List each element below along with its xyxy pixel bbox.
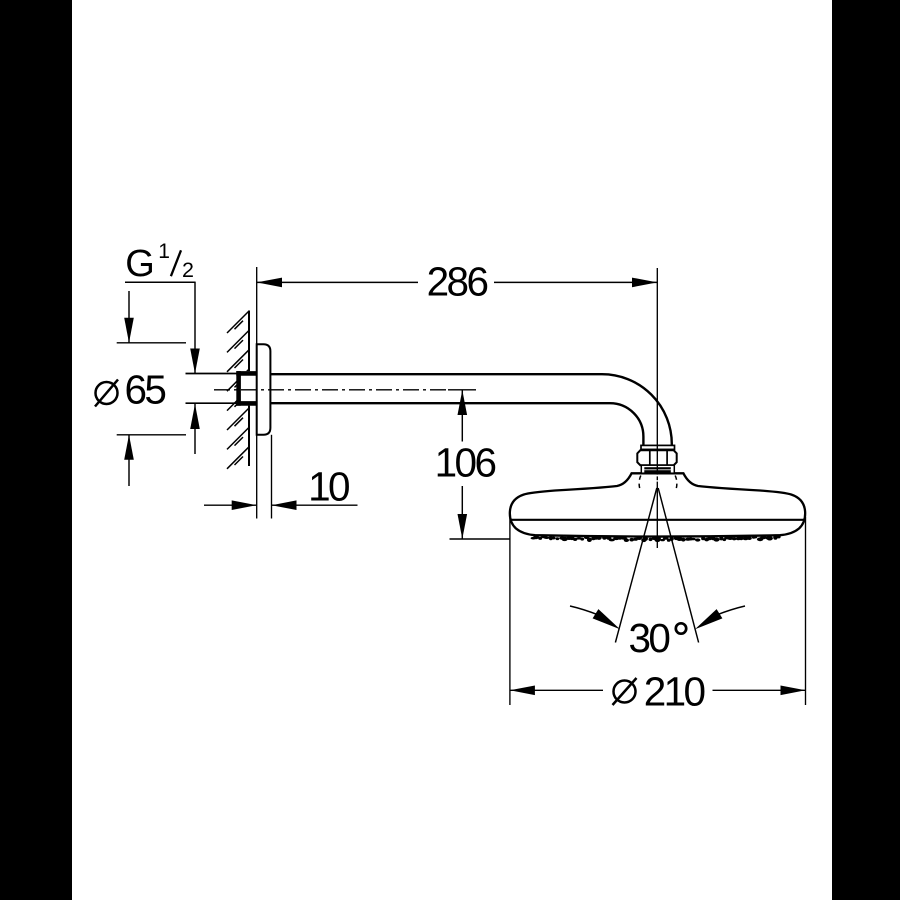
dimension 286: dim line right segment [494, 281, 657, 283]
swivel ring 1 [644, 467, 671, 469]
wall face extension line [256, 267, 258, 519]
right black pillar bar [832, 0, 900, 900]
dimension O65: top arrow [128, 291, 130, 343]
wall hatching [227, 311, 249, 469]
union nut [637, 450, 676, 465]
wall flange (escutcheon) [257, 344, 271, 435]
left arc arrow for 30 deg [570, 606, 598, 615]
svg-text:30: 30 [629, 615, 670, 661]
svg-text:10: 10 [308, 464, 349, 510]
svg-text:G: G [125, 243, 155, 285]
dimension 286: right arrowhead [632, 278, 657, 288]
dimension O210: dim line left segment [510, 689, 603, 691]
O210 left extension line [509, 517, 511, 705]
O210 right extension line [805, 517, 807, 705]
dimension 106: lower arrow to extent [461, 486, 463, 539]
bottom face line over nozzles [535, 535, 780, 536]
diameter symbol for 65 [95, 380, 118, 407]
center nozzle dot [654, 536, 661, 542]
degree symbol [676, 623, 686, 633]
diameter symbol for 210 [613, 678, 637, 705]
pipe centerline (dash-dot) [214, 389, 448, 391]
svg-text:2: 2 [182, 258, 194, 282]
spray cone left line [615, 488, 656, 643]
head seam line [510, 519, 805, 521]
dimension 106: upper arrow to centerline [461, 390, 463, 442]
dimension O210: dim line right segment [713, 689, 806, 691]
right arc arrow for 30 deg [717, 606, 745, 615]
wall line [248, 311, 250, 467]
svg-text:286: 286 [427, 259, 488, 305]
svg-text:106: 106 [435, 440, 496, 486]
left black pillar bar [0, 0, 72, 900]
shower head body [510, 473, 805, 536]
svg-text:210: 210 [644, 669, 705, 715]
dimension 10: dim line left segment [204, 504, 257, 506]
G1/2 leader line and arrow to pipe top [194, 282, 196, 373]
shower arm bottom outline with inner bend [270, 403, 643, 447]
dimension 10: dim line right segment [272, 504, 358, 506]
spray nozzle band [531, 535, 781, 542]
dimension 286: dim line left segment [257, 281, 418, 283]
dimension O65: bottom arrow [128, 435, 130, 486]
shower arm top outline with outer bend [270, 374, 671, 447]
dimension O65: top extent line [117, 342, 186, 344]
dimension 106: bottom extent line [450, 538, 510, 540]
G1/2 connector square [237, 371, 257, 405]
svg-text:1: 1 [158, 240, 170, 263]
G1/2 lower arrow to pipe bottom [194, 404, 196, 454]
pipe thread outline extensions (left of wall) [186, 373, 237, 375]
collar under pipe [641, 445, 675, 449]
svg-text:65: 65 [125, 367, 166, 413]
flange front extension line for 10 [271, 435, 273, 519]
taper below nut [641, 465, 674, 473]
swivel ring 2 [644, 470, 671, 473]
spray cone right line [658, 488, 698, 643]
hidden ball joint dashed arcs [639, 476, 677, 492]
G1/2 underline [125, 281, 196, 283]
dimension O65: bottom extent line [117, 434, 186, 436]
head axis extension line (286 right) [656, 268, 658, 475]
dimension 286: left arrowhead [257, 278, 282, 288]
